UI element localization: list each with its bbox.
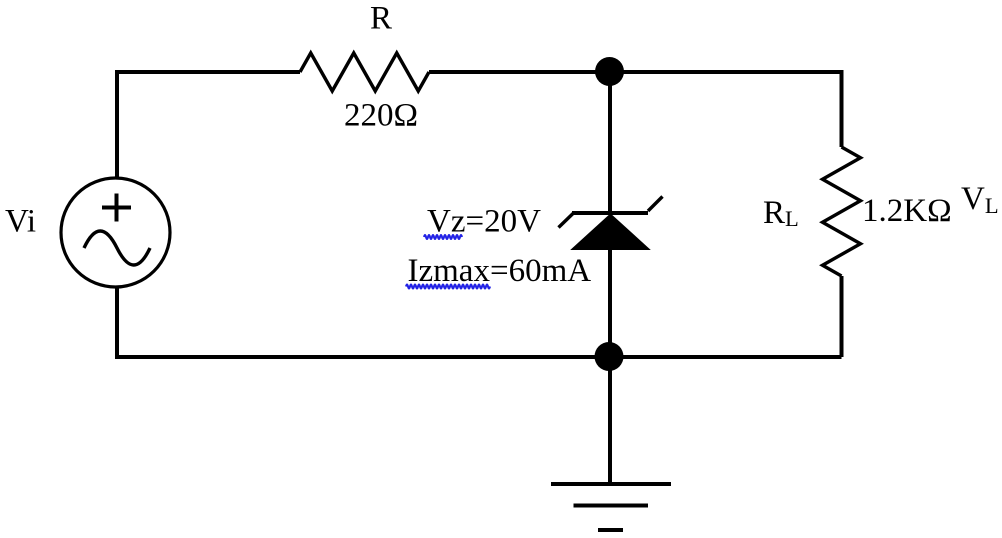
svg-text:Vz=20V: Vz=20V	[427, 204, 541, 240]
wire ground lead	[608, 357, 612, 484]
node junction top	[595, 57, 624, 86]
wire top-left horizontal	[116, 70, 300, 74]
resistor R	[300, 53, 429, 91]
wire bottom horizontal	[115, 355, 842, 359]
wire left-bottom vertical	[115, 287, 119, 358]
node junction bottom	[595, 342, 624, 371]
svg-text:Vi: Vi	[5, 204, 36, 240]
wire middle vertical upper (zener cathode lead)	[608, 72, 612, 215]
wire right vertical upper	[840, 70, 844, 147]
voltage source Vi	[61, 178, 170, 287]
resistor RL	[823, 147, 861, 276]
wire top-middle horizontal	[429, 70, 842, 74]
svg-text:220Ω: 220Ω	[344, 98, 418, 134]
zener diode	[559, 197, 663, 250]
ground	[551, 484, 671, 530]
svg-text:R: R	[370, 1, 392, 37]
squiggle under Vz	[424, 235, 462, 239]
wire left vertical	[115, 70, 119, 179]
squiggle under Izmax	[406, 285, 490, 289]
svg-text:1.2KΩ: 1.2KΩ	[862, 193, 952, 229]
wire right vertical lower	[840, 276, 844, 357]
wire middle vertical lower (zener anode lead)	[608, 249, 612, 357]
